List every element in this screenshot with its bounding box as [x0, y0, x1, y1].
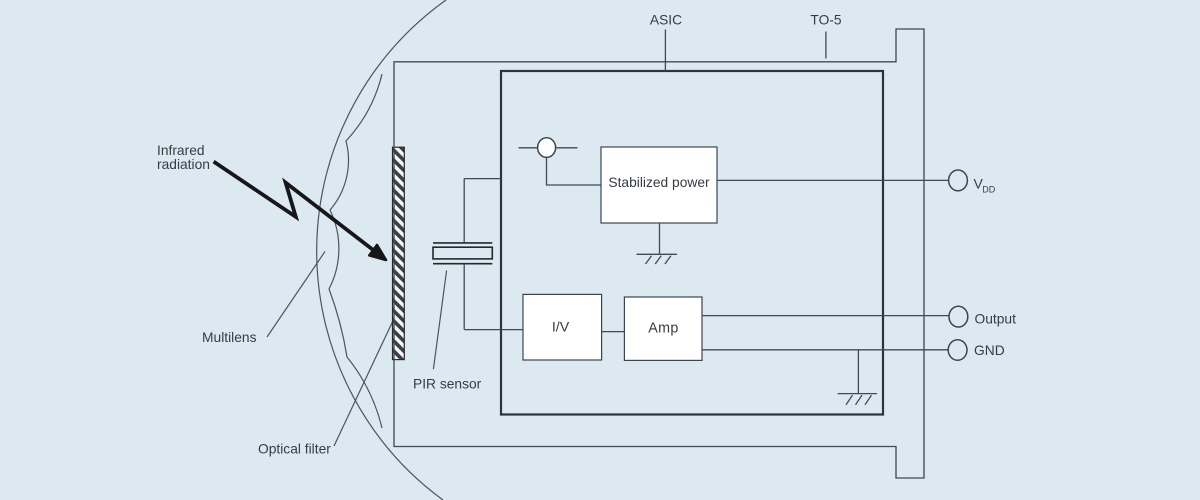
ground below stabilized power — [637, 254, 678, 264]
wire Amp to Output — [702, 315, 949, 317]
Multilens leader line — [267, 252, 325, 338]
PIR sensor leader line — [433, 270, 446, 369]
optical filter bar (hatched) — [393, 147, 405, 359]
multilens scallop segments — [329, 74, 382, 428]
wire stabilized power to ground — [659, 223, 661, 254]
wire PIR to I/V — [464, 329, 523, 331]
svg-text:Output: Output — [975, 312, 1017, 327]
TO-5 package outline — [394, 29, 924, 478]
infrared radiation lightning arrow — [214, 162, 386, 260]
ground at GND line — [838, 394, 877, 405]
svg-text:I/V: I/V — [552, 320, 570, 336]
wire GND branch to ground — [857, 350, 859, 394]
svg-text:PIR sensor: PIR sensor — [413, 377, 482, 392]
wire PIR top to ASIC — [464, 178, 501, 180]
GND terminal circle — [948, 340, 967, 361]
VDD terminal circle — [949, 170, 968, 191]
svg-text:Amp: Amp — [648, 321, 679, 337]
svg-text:Optical filter: Optical filter — [258, 442, 331, 457]
PIR sensor crystal element — [433, 243, 492, 264]
Optical filter leader line — [334, 322, 392, 446]
stabilized power box U1 — [601, 147, 717, 223]
Output terminal circle — [949, 306, 968, 327]
svg-text:GND: GND — [974, 343, 1005, 358]
ASIC leader line — [664, 30, 666, 72]
svg-text:DD: DD — [982, 184, 995, 194]
svg-text:Stabilized power: Stabilized power — [608, 175, 710, 190]
svg-text:radiation: radiation — [157, 157, 210, 172]
wire Amp to GND — [702, 349, 948, 351]
svg-text:Infrared: Infrared — [157, 143, 205, 158]
svg-text:Multilens: Multilens — [202, 330, 257, 345]
terminal circle — [538, 138, 556, 158]
wire terminal to stabilized power — [547, 157, 602, 185]
Amp box — [624, 297, 702, 360]
wire stabilized power to VDD — [717, 179, 949, 181]
svg-text:TO-5: TO-5 — [810, 13, 842, 28]
TO-5 leader line — [825, 32, 827, 59]
ASIC box — [501, 71, 883, 415]
wire PIR top vertical — [463, 179, 465, 243]
multilens dome arc — [317, 0, 446, 500]
wire PIR bottom vertical — [463, 264, 465, 330]
wire I/V to Amp — [602, 331, 625, 333]
svg-text:ASIC: ASIC — [650, 13, 682, 28]
wire through terminal circle — [519, 147, 578, 149]
I/V box — [523, 294, 602, 360]
